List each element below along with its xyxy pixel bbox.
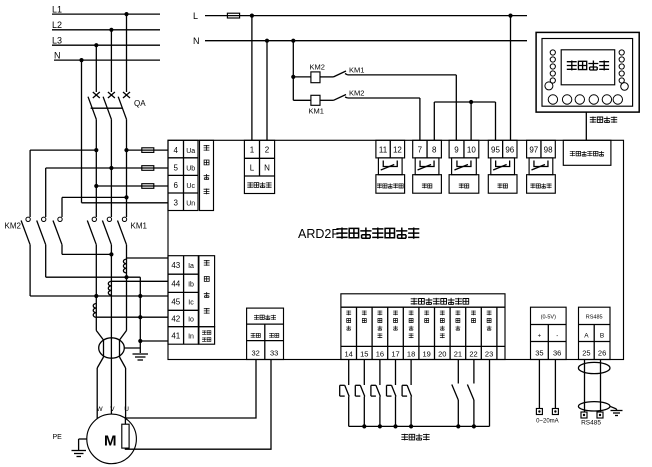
svg-text:36: 36 [553,349,561,358]
svg-text:PE: PE [53,434,63,441]
svg-text:Io: Io [188,317,194,324]
svg-text:12: 12 [393,146,402,155]
svg-text:25: 25 [582,349,590,358]
svg-text:11: 11 [379,146,388,155]
svg-text:N: N [54,50,61,60]
svg-text:QA: QA [134,99,146,108]
svg-text:Ia: Ia [188,263,194,270]
svg-text:6: 6 [173,181,178,190]
svg-text:L2: L2 [52,20,62,30]
svg-text:V: V [110,406,115,413]
svg-text:14: 14 [345,349,353,358]
svg-text:N: N [264,163,270,172]
svg-text:20: 20 [438,349,446,358]
svg-text:KM2: KM2 [310,63,325,72]
svg-text:L: L [193,11,198,21]
svg-text:42: 42 [171,315,180,324]
svg-text:41: 41 [171,332,180,341]
svg-text:22: 22 [469,349,477,358]
svg-text:(0-5V): (0-5V) [541,315,556,321]
svg-text:Ua: Ua [186,148,195,155]
svg-text:43: 43 [171,261,180,270]
svg-text:1: 1 [250,146,255,155]
svg-text:98: 98 [544,146,553,155]
svg-text:15: 15 [360,349,368,358]
svg-text:10: 10 [467,146,476,155]
svg-text:+: + [538,334,542,340]
svg-text:23: 23 [485,349,493,358]
svg-text:U: U [124,406,129,413]
svg-text:ARD2F: ARD2F [298,227,339,241]
svg-text:9: 9 [454,146,459,155]
svg-text:KM1: KM1 [131,221,148,230]
svg-text:RS485: RS485 [586,315,603,321]
svg-text:35: 35 [535,349,543,358]
svg-text:44: 44 [171,279,180,288]
svg-text:In: In [188,334,194,341]
svg-text:96: 96 [505,146,514,155]
svg-text:4: 4 [173,146,178,155]
svg-text:L3: L3 [52,35,62,45]
svg-text:21: 21 [454,349,462,358]
svg-text:5: 5 [173,163,178,172]
svg-text:A: A [584,333,589,340]
svg-text:7: 7 [418,146,423,155]
svg-text:2: 2 [265,146,270,155]
svg-text:3: 3 [173,199,178,208]
svg-text:-: - [556,334,558,340]
svg-text:KM1: KM1 [309,107,324,116]
svg-text:W: W [97,406,104,413]
svg-text:17: 17 [391,349,399,358]
svg-text:KM2: KM2 [349,89,364,98]
svg-text:18: 18 [407,349,415,358]
svg-text:Uc: Uc [186,183,195,190]
svg-text:45: 45 [171,297,180,306]
svg-text:26: 26 [598,349,606,358]
svg-text:95: 95 [491,146,500,155]
svg-text:M: M [104,433,117,450]
svg-text:0~20mA: 0~20mA [536,419,559,425]
svg-text:Ic: Ic [188,299,194,306]
svg-text:RS485: RS485 [581,420,601,427]
svg-text:KM2: KM2 [5,221,22,230]
svg-text:L: L [250,163,255,172]
svg-text:KM1: KM1 [349,66,364,75]
svg-text:Ib: Ib [188,281,194,288]
svg-text:B: B [600,333,604,340]
svg-text:33: 33 [270,349,278,358]
svg-text:Un: Un [186,201,195,208]
svg-text:16: 16 [376,349,384,358]
svg-text:L1: L1 [52,4,62,14]
svg-text:32: 32 [252,349,260,358]
svg-text:N: N [193,36,200,46]
svg-text:Ub: Ub [186,165,195,172]
svg-text:8: 8 [432,146,437,155]
svg-text:19: 19 [423,349,431,358]
svg-text:97: 97 [529,146,538,155]
